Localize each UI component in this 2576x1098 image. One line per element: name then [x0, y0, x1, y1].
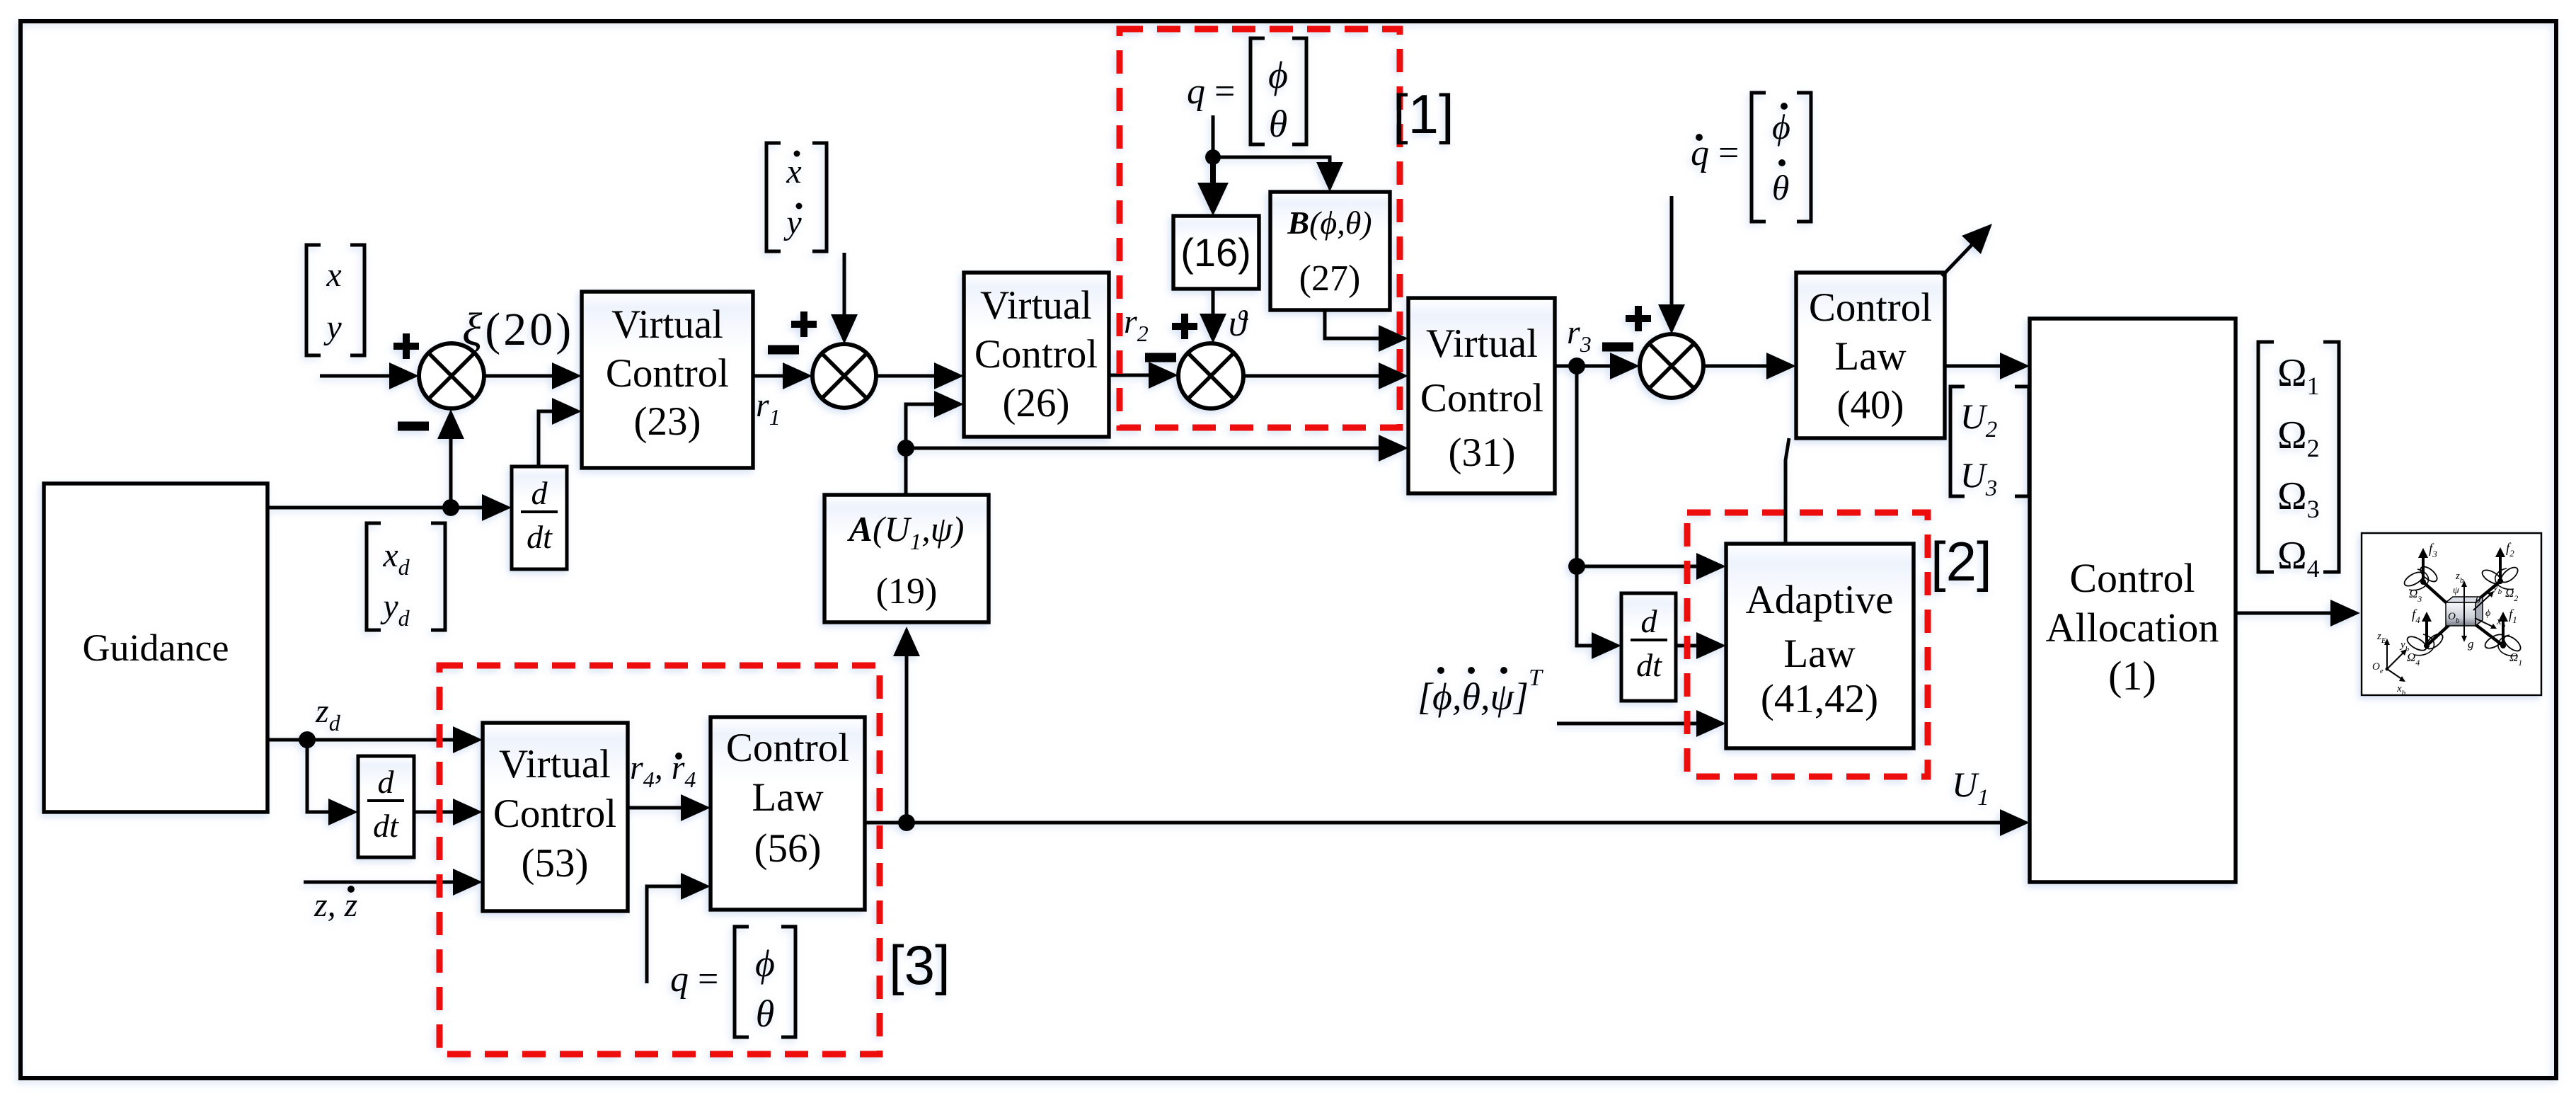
wire Control Allocation to quadrotor [2236, 600, 2360, 627]
block A(U1,psi)(19) [824, 495, 989, 622]
wire angle rates to Adaptive in3 [1557, 710, 1726, 737]
wire CL40 to Control Allocation [1945, 353, 2030, 379]
svg-text:Law: Law [1834, 334, 1906, 379]
label matrix xdot ydot [766, 143, 827, 251]
svg-text:ϕ: ϕ [755, 942, 775, 985]
svg-text:B(ϕ,θ): B(ϕ,θ) [1287, 205, 1372, 241]
wire VC23 to sum2 [753, 362, 812, 389]
svg-text:[2]: [2] [1931, 530, 1992, 593]
svg-text:dt: dt [1636, 647, 1662, 683]
label matrix Omega1-4 [2258, 342, 2339, 583]
quadrotor body axes [2448, 571, 2506, 651]
block (16) [1173, 216, 1259, 289]
block Control Law (56) [711, 717, 865, 910]
wire sum1 to VC23 [484, 362, 582, 389]
wire r3 down to d/dt3 [1577, 566, 1621, 659]
wire qdot down to sum4 [1658, 196, 1685, 334]
wire B to VC31 in1 [1325, 310, 1408, 352]
wire q to (16) [1197, 157, 1229, 216]
svg-text:dt: dt [527, 519, 553, 555]
block d/dt 2 [358, 756, 414, 857]
svg-text:d: d [1641, 603, 1658, 639]
plus sign sum4 [1626, 306, 1651, 331]
wire d/dt3 to Adaptive in2 [1676, 632, 1726, 659]
wire xdot ydot down to sum2 [831, 253, 858, 344]
summing junction sum4 [1640, 334, 1703, 398]
block Virtual Control (23) [582, 292, 753, 468]
block d/dt 1 [512, 467, 567, 569]
wire junction to VC26 in2 [906, 391, 964, 448]
quadrotor picture frame [2362, 533, 2541, 695]
wire sum2 to VC26 [876, 362, 964, 389]
wire d/dt2 to VC53 in2 [414, 799, 483, 825]
svg-text:[1]: [1] [1393, 83, 1454, 145]
svg-text:Virtual: Virtual [611, 302, 723, 347]
svg-text:Control: Control [1809, 285, 1932, 330]
svg-text:ϕ: ϕ [1268, 54, 1288, 96]
svg-text:θ: θ [1772, 168, 1790, 207]
svg-text:q =: q = [670, 959, 718, 1000]
wire d/dt1 to VC23 in2 [539, 398, 582, 467]
svg-text:d: d [531, 475, 548, 511]
wire junction up to sum1 [437, 409, 464, 508]
label q = matrix phi theta (top) [1187, 38, 1306, 145]
svg-text:(56): (56) [754, 826, 822, 871]
wire q input to CL56 [647, 873, 711, 983]
minus sign sum3 [1145, 353, 1176, 362]
wire CL56 out U1 line [865, 821, 2000, 825]
junction dot xd line [442, 499, 459, 516]
block Guidance [44, 484, 268, 812]
plus sign sum2 [791, 311, 817, 337]
label phidot thetadot psidot transposed [1418, 665, 1543, 718]
minus sign sum4 [1602, 343, 1633, 352]
block Control Allocation (1) [2030, 319, 2236, 882]
label matrix x y [306, 245, 364, 355]
wire junction down to A block [904, 448, 908, 495]
minus sign sum2 [768, 345, 799, 355]
block d/dt 3 [1621, 593, 1676, 701]
label qdot = matrix phidot thetadot [1691, 93, 1811, 222]
svg-text:(16): (16) [1180, 230, 1251, 275]
wire (16) to sum3 [1200, 289, 1226, 343]
svg-text:dt: dt [373, 808, 399, 844]
svg-text:Virtual: Virtual [980, 283, 1092, 328]
junction dot zd [299, 731, 316, 748]
svg-text:Control: Control [726, 726, 849, 770]
block B(phi,theta)(27) [1270, 192, 1390, 310]
svg-text:(41,42): (41,42) [1761, 677, 1878, 721]
label matrix xd yd [367, 523, 445, 631]
wire Guidance to d/dt (xd,yd) [268, 494, 512, 521]
svg-text:[3]: [3] [889, 934, 950, 996]
quadrotor arms [2423, 581, 2503, 646]
rotor 1 bottom-right [2483, 607, 2524, 668]
wire r3 down [1575, 366, 1579, 566]
dashed group box 3 [439, 665, 880, 1054]
svg-text:A(U1,ψ): A(U1,ψ) [847, 509, 965, 555]
block Virtual Control (26) [964, 273, 1109, 437]
earth frame axes [2372, 631, 2410, 697]
block Control Law (40) [1796, 273, 1945, 438]
svg-text:Control: Control [606, 351, 729, 396]
svg-text:Control: Control [2069, 555, 2195, 601]
svg-text:Adaptive: Adaptive [1746, 578, 1894, 622]
svg-text:(31): (31) [1449, 430, 1516, 475]
wire r3 to Adaptive in1 [1577, 553, 1726, 580]
svg-text:θ: θ [756, 993, 775, 1035]
junction dot r3 lower [1568, 558, 1585, 575]
summing junction sum2 [812, 344, 876, 408]
svg-text:Control: Control [493, 791, 616, 836]
wire junction to VC31 in3 [906, 435, 1408, 462]
wire VC31 to sum4 [1555, 353, 1640, 379]
dashed group box 1 [1120, 29, 1400, 428]
svg-text:Law: Law [752, 775, 823, 820]
wire VC53 to CL56 [628, 794, 711, 821]
svg-text:q =: q = [1187, 72, 1235, 112]
junction dot q [1205, 149, 1221, 165]
svg-text:d: d [378, 764, 395, 800]
svg-text:ϑ: ϑ [1229, 304, 1248, 344]
svg-text:(19): (19) [876, 571, 938, 612]
svg-text:Guidance: Guidance [83, 627, 229, 669]
wire U1 line up into A block [893, 627, 920, 823]
wire q branch to B block [1213, 157, 1343, 192]
rotor 3 top-left [2403, 542, 2440, 604]
dashed group box 2 [1687, 513, 1928, 777]
svg-text:ϕ: ϕ [1772, 107, 1790, 147]
plus sign sum1 [393, 333, 419, 359]
summing junction sum1 [419, 343, 484, 408]
svg-text:(1): (1) [2108, 653, 2156, 699]
label r4 r4dot [630, 749, 696, 792]
svg-text:Control: Control [1420, 376, 1543, 421]
wire zd down to d/dt2 [307, 740, 358, 825]
plus sign sum3 [1172, 314, 1197, 339]
junction dot below VC26 [897, 440, 914, 457]
quadrotor body cube [2446, 597, 2483, 626]
diagonal arrow from CL40 [1942, 224, 1992, 276]
svg-text:ψ: ψ [2453, 585, 2459, 596]
svg-text:y: y [323, 309, 342, 346]
label z zdot [314, 886, 358, 924]
svg-text:(26): (26) [1003, 381, 1070, 425]
minus sign sum1 [398, 422, 429, 431]
wire VC26 to sum3 [1109, 362, 1178, 389]
label q = matrix phi theta (bottom) [670, 927, 795, 1037]
svg-text:Control: Control [974, 332, 1098, 377]
svg-text:x: x [326, 256, 341, 294]
block Virtual Control (53) [483, 723, 628, 911]
junction dot r3 [1568, 358, 1585, 374]
svg-text:ϕ: ϕ [2485, 608, 2490, 619]
block Virtual Control (31) [1408, 298, 1555, 493]
wire input x y to sum1 [320, 362, 419, 389]
wire Guidance zd out [268, 726, 483, 753]
svg-text:Virtual: Virtual [499, 742, 611, 787]
arrowhead U1 into Control Allocation [2000, 809, 2030, 836]
wire q down [1212, 115, 1215, 157]
label matrix U2 U3 [1950, 387, 2029, 501]
svg-text:(53): (53) [522, 841, 589, 886]
wire sum3 to VC31 [1243, 362, 1408, 389]
svg-text:(40): (40) [1837, 383, 1904, 428]
block Adaptive Law (41,42) [1726, 544, 1914, 748]
svg-text:(23): (23) [634, 399, 701, 444]
wire z zdot to VC53 in3 [304, 869, 483, 896]
rotor 4 bottom-left [2405, 607, 2446, 668]
svg-text:g: g [2468, 637, 2474, 651]
svg-text:Allocation: Allocation [2046, 605, 2219, 651]
svg-text:θ: θ [1269, 103, 1288, 145]
wire sum4 to CL40 [1703, 353, 1796, 379]
svg-text:θ: θ [2476, 595, 2480, 606]
svg-text:y: y [783, 204, 802, 241]
svg-text:Law: Law [1783, 631, 1855, 676]
rotor 2 top-right [2480, 541, 2521, 603]
svg-text:x: x [786, 153, 801, 190]
junction dot U1 [898, 814, 915, 831]
svg-text:ξ(20): ξ(20) [462, 304, 574, 355]
summing junction sum3 [1178, 343, 1243, 408]
svg-text:(27): (27) [1299, 258, 1361, 299]
svg-text:Virtual: Virtual [1426, 321, 1538, 366]
wire CL40 down to Adaptive [1786, 438, 1789, 544]
